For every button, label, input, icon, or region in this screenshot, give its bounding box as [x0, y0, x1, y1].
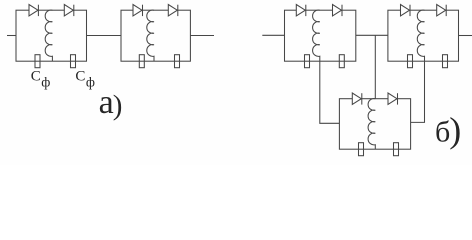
svg-text:ф: ф: [41, 76, 50, 91]
svg-text:ф: ф: [86, 76, 95, 91]
inductor L2: [147, 10, 154, 61]
wire: junction between B1 and B2: [356, 34, 388, 36]
diode VD9: [352, 93, 361, 104]
cell B2 box: [388, 10, 459, 61]
label Cf 1: [31, 69, 51, 91]
diode VD8: [437, 5, 446, 16]
capacitor C1 (Cf): [35, 55, 40, 68]
diode VD10: [388, 93, 397, 104]
cell B1 box: [285, 10, 356, 61]
diode VD4: [168, 5, 177, 16]
diode VD7: [401, 5, 410, 16]
label a): [99, 84, 123, 121]
capacitor C10: [394, 143, 399, 156]
capacitor C4: [175, 55, 180, 68]
diode VD2: [64, 5, 73, 16]
svg-text:а: а: [99, 84, 114, 121]
diode VD1: [29, 5, 38, 16]
wire: output of circuit a: [190, 35, 214, 37]
wire: drop from junction to cell B3 top node: [374, 35, 376, 98]
svg-text:С: С: [75, 69, 85, 85]
wire: input of circuit b: [262, 34, 284, 36]
inductor L5: [368, 99, 375, 150]
wire: output of circuit b: [459, 35, 472, 37]
wire: link from B1 bottom node down and right to B3 left side: [320, 61, 340, 123]
diode VD6: [333, 5, 342, 16]
capacitor C7: [408, 55, 413, 68]
inductor L4: [417, 10, 424, 61]
capacitor C8: [443, 55, 448, 68]
capacitor C5: [305, 55, 310, 68]
capacitor C3: [139, 55, 144, 68]
cell A2 box: [121, 10, 190, 61]
svg-text:): ): [449, 110, 461, 150]
capacitor C9: [359, 143, 364, 156]
wire: link from B2 bottom node down and left to B3 right side: [411, 61, 425, 122]
wire: between A1 and A2: [87, 35, 122, 37]
svg-text:б: б: [435, 115, 450, 148]
label b): [435, 110, 461, 150]
inductor L3: [313, 10, 320, 61]
diode VD3: [133, 5, 142, 16]
svg-text:С: С: [31, 69, 41, 85]
capacitor C2 (Cf): [71, 55, 76, 68]
inductor L1: [45, 10, 52, 61]
cell B3 box: [339, 99, 410, 150]
cell A1 box: [16, 10, 87, 61]
diode VD5: [296, 5, 305, 16]
label Cf 2: [75, 69, 95, 91]
wire: input of circuit a: [7, 35, 16, 37]
capacitor C6: [339, 55, 344, 68]
svg-text:): ): [113, 89, 123, 121]
